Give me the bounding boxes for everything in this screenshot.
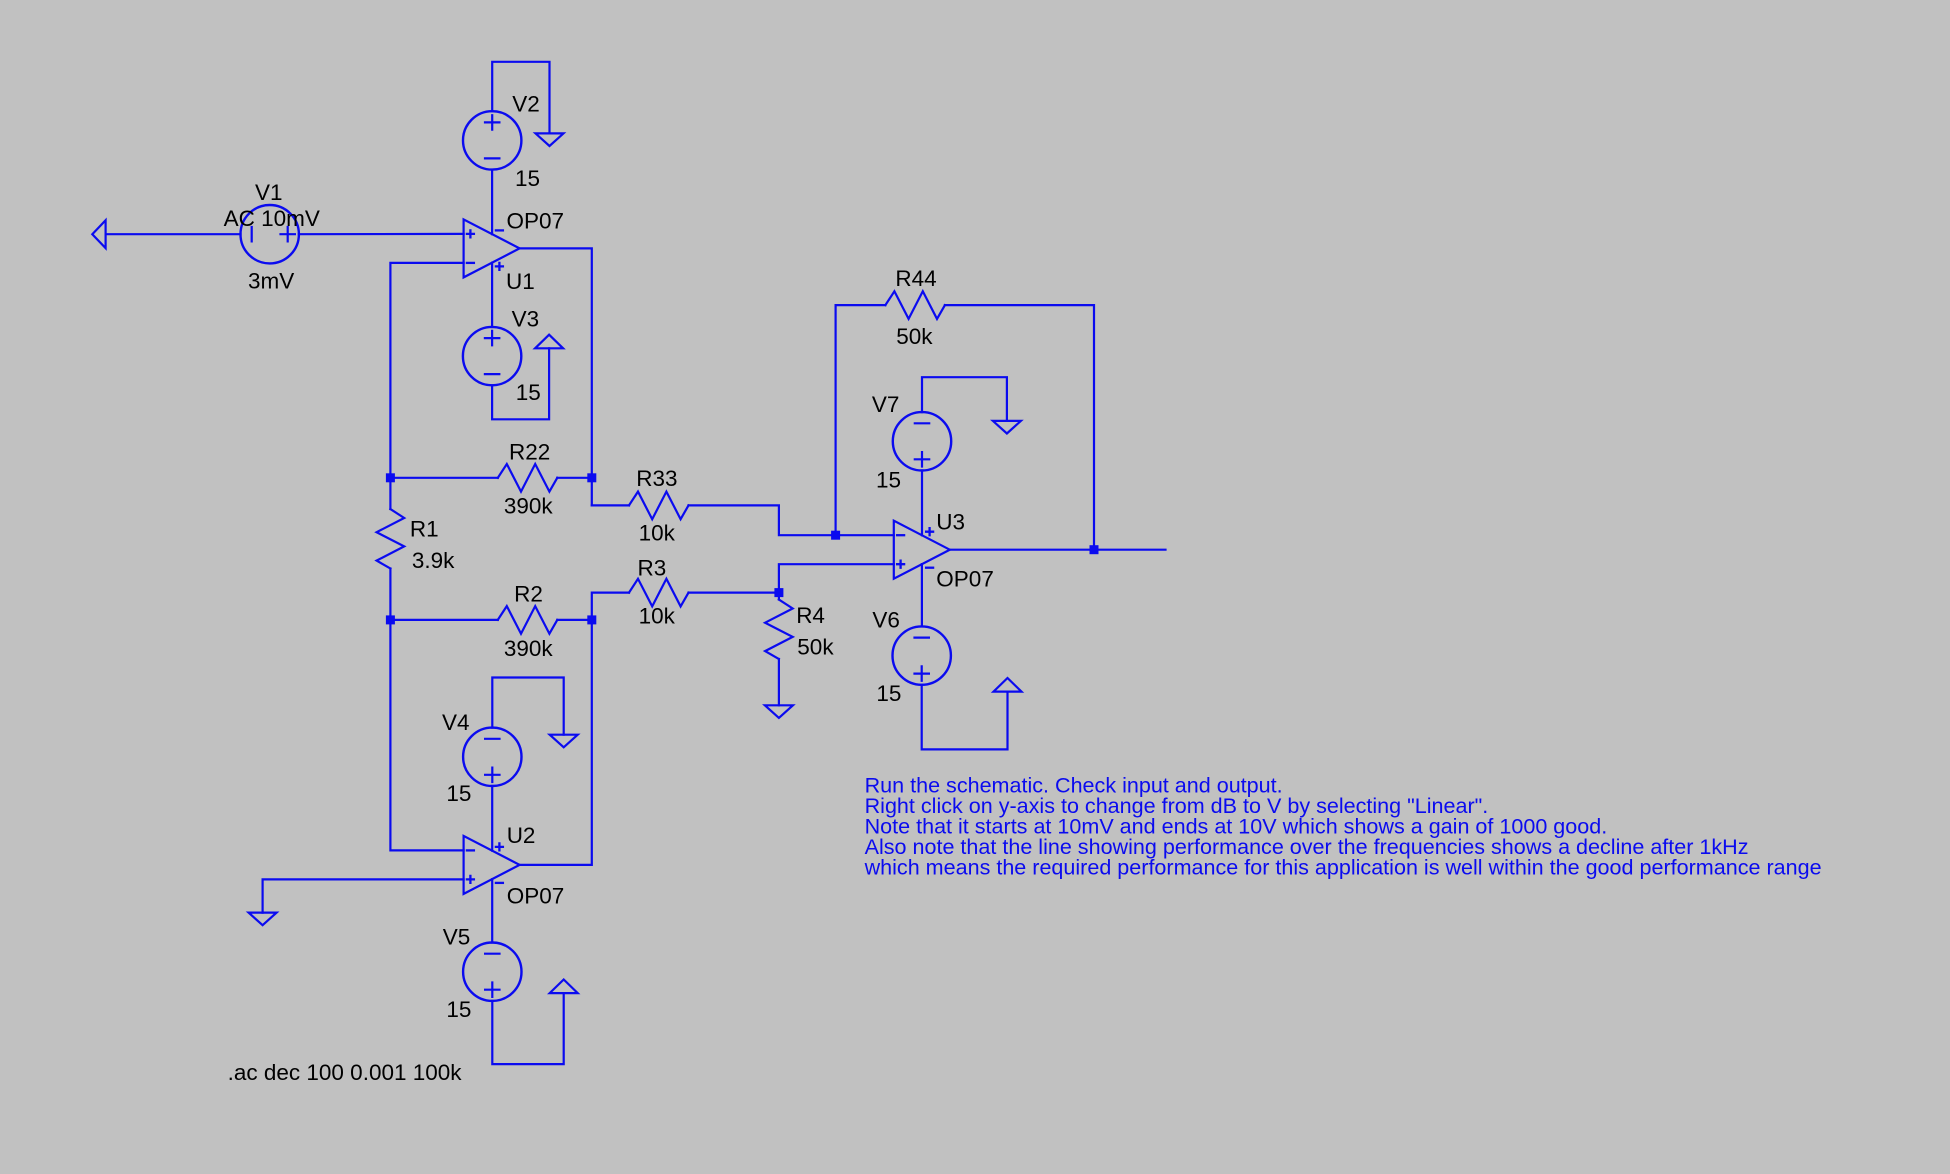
svg-text:V7: V7 [872,392,900,417]
svg-text:50k: 50k [797,635,834,660]
svg-text:R4: R4 [796,603,825,628]
svg-text:R3: R3 [638,555,667,580]
svg-text:390k: 390k [504,494,554,519]
svg-text:15: 15 [446,997,471,1022]
svg-text:.ac dec 100 0.001 100k: .ac dec 100 0.001 100k [228,1060,463,1085]
svg-text:R33: R33 [636,466,677,491]
svg-text:R2: R2 [514,582,543,607]
svg-text:3.9k: 3.9k [412,548,455,573]
svg-text:R1: R1 [410,517,439,542]
svg-text:390k: 390k [504,636,554,661]
svg-text:15: 15 [516,380,541,405]
svg-text:OP07: OP07 [507,883,565,908]
svg-text:V1: V1 [255,180,283,205]
svg-text:OP07: OP07 [936,567,994,592]
svg-text:U3: U3 [936,509,965,534]
svg-text:10k: 10k [639,603,676,628]
svg-text:V6: V6 [872,608,900,633]
svg-text:V2: V2 [512,92,540,117]
svg-text:which means the required perfo: which means the required performance for… [864,855,1822,880]
svg-text:3mV: 3mV [248,269,294,294]
svg-text:U2: U2 [507,823,536,848]
svg-text:15: 15 [515,166,540,191]
svg-text:OP07: OP07 [507,208,565,233]
svg-text:V3: V3 [512,307,540,332]
svg-text:10k: 10k [639,520,676,545]
svg-text:50k: 50k [896,324,933,349]
svg-text:15: 15 [876,681,901,706]
svg-text:15: 15 [446,781,471,806]
svg-text:R22: R22 [509,439,550,464]
svg-text:U1: U1 [506,269,535,294]
svg-text:V4: V4 [442,710,470,735]
svg-text:15: 15 [876,467,901,492]
svg-text:V5: V5 [443,925,471,950]
svg-text:R44: R44 [895,266,936,291]
svg-text:AC 10mV: AC 10mV [224,206,320,231]
